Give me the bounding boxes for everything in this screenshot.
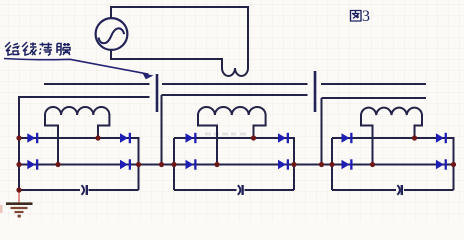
- label 绝缘薄膜: [5, 42, 70, 56]
- diode D11: [342, 159, 353, 169]
- diode D1: [27, 133, 38, 143]
- wire source top: [111, 6, 248, 8]
- capacitor insulation film plate 2: [314, 71, 317, 112]
- svg-text:3: 3: [362, 8, 370, 25]
- wire top bus segment 2: [162, 83, 308, 85]
- wire L1 left tap: [45, 114, 58, 165]
- wire block2 top plate line: [162, 94, 308, 96]
- junction dot block1 rail row1: [16, 135, 21, 140]
- inductor L0: [222, 68, 248, 76]
- inductor L2: [198, 107, 266, 115]
- diode D9: [342, 133, 353, 143]
- AC source G1: [96, 18, 128, 50]
- diode D4: [120, 159, 131, 169]
- capacitor C3: [397, 185, 402, 195]
- wire block3 row3: [332, 189, 454, 191]
- junction dot feed1 row2: [159, 162, 164, 167]
- junction dot block2 rail row2: [171, 162, 176, 167]
- wire L3 left tap: [361, 114, 373, 165]
- junction dot block3 right row2: [451, 162, 456, 167]
- diode D6: [278, 133, 289, 143]
- junction dot block3 rail row2: [329, 162, 334, 167]
- wire block1 right vertical: [138, 137, 140, 190]
- capacitor C2: [238, 185, 243, 195]
- wire block2 left rail: [173, 138, 175, 190]
- wire top bus segment 3: [321, 83, 426, 85]
- junction dot block3 tap row2: [370, 162, 375, 167]
- wire L2 left tap: [198, 114, 217, 165]
- capacitor insulation film plate 1: [156, 74, 159, 112]
- diode D3: [27, 159, 38, 169]
- junction dot block3 tap row1: [412, 135, 417, 140]
- diode D5: [186, 133, 197, 143]
- wire source top stub: [110, 6, 112, 19]
- wire block1 top plate line: [19, 96, 150, 98]
- junction dot block1 ground: [16, 187, 21, 192]
- label 图3: [351, 8, 371, 25]
- wire source riser: [247, 6, 249, 68]
- wire top bus segment 1: [44, 83, 150, 85]
- wire block1 row1: [19, 137, 139, 139]
- wire block2 right vertical: [293, 137, 295, 190]
- wire block3 row1: [332, 137, 454, 139]
- wire block2 row3: [174, 189, 294, 191]
- wire L1 right tap: [98, 114, 109, 138]
- junction dot feed2 row2: [319, 162, 324, 167]
- wire feed 2: [321, 98, 323, 165]
- junction dot block1 tap row2: [55, 162, 60, 167]
- watermark dashes: [205, 133, 246, 136]
- edge artifact mark: [0, 205, 3, 213]
- junction dot block2 tap row1: [251, 135, 256, 140]
- diode D8: [278, 159, 289, 169]
- wire row2 bus: [19, 164, 454, 166]
- wire source bottom stub: [110, 49, 112, 60]
- wire feed 1: [161, 95, 163, 165]
- wire source step: [111, 59, 222, 69]
- junction dot block1 rail row2: [16, 162, 21, 167]
- wire block1 left rail: [18, 96, 20, 190]
- junction dot block1 tap row1: [95, 135, 100, 140]
- capacitor C1: [82, 185, 87, 195]
- inductor L1: [45, 107, 109, 115]
- wire L2 right tap: [254, 114, 266, 138]
- wire block3 left rail: [331, 138, 333, 190]
- wire block1 row3: [19, 189, 139, 191]
- wire L3 right tap: [415, 114, 423, 138]
- wire block3 right vertical: [453, 137, 455, 190]
- junction dot block2 tap row2: [214, 162, 219, 167]
- diode D7: [186, 159, 197, 169]
- diode D12: [436, 159, 447, 169]
- junction dot block1 right row2: [136, 162, 141, 167]
- wire block2 row1: [174, 137, 294, 139]
- wire block3 top plate line: [322, 97, 427, 99]
- junction dot block2 right row2: [291, 162, 296, 167]
- ground: [6, 191, 33, 218]
- leader arrow to film: [4, 59, 154, 80]
- inductor L3: [361, 108, 422, 115]
- diode D10: [436, 133, 447, 143]
- diode D2: [120, 133, 131, 143]
